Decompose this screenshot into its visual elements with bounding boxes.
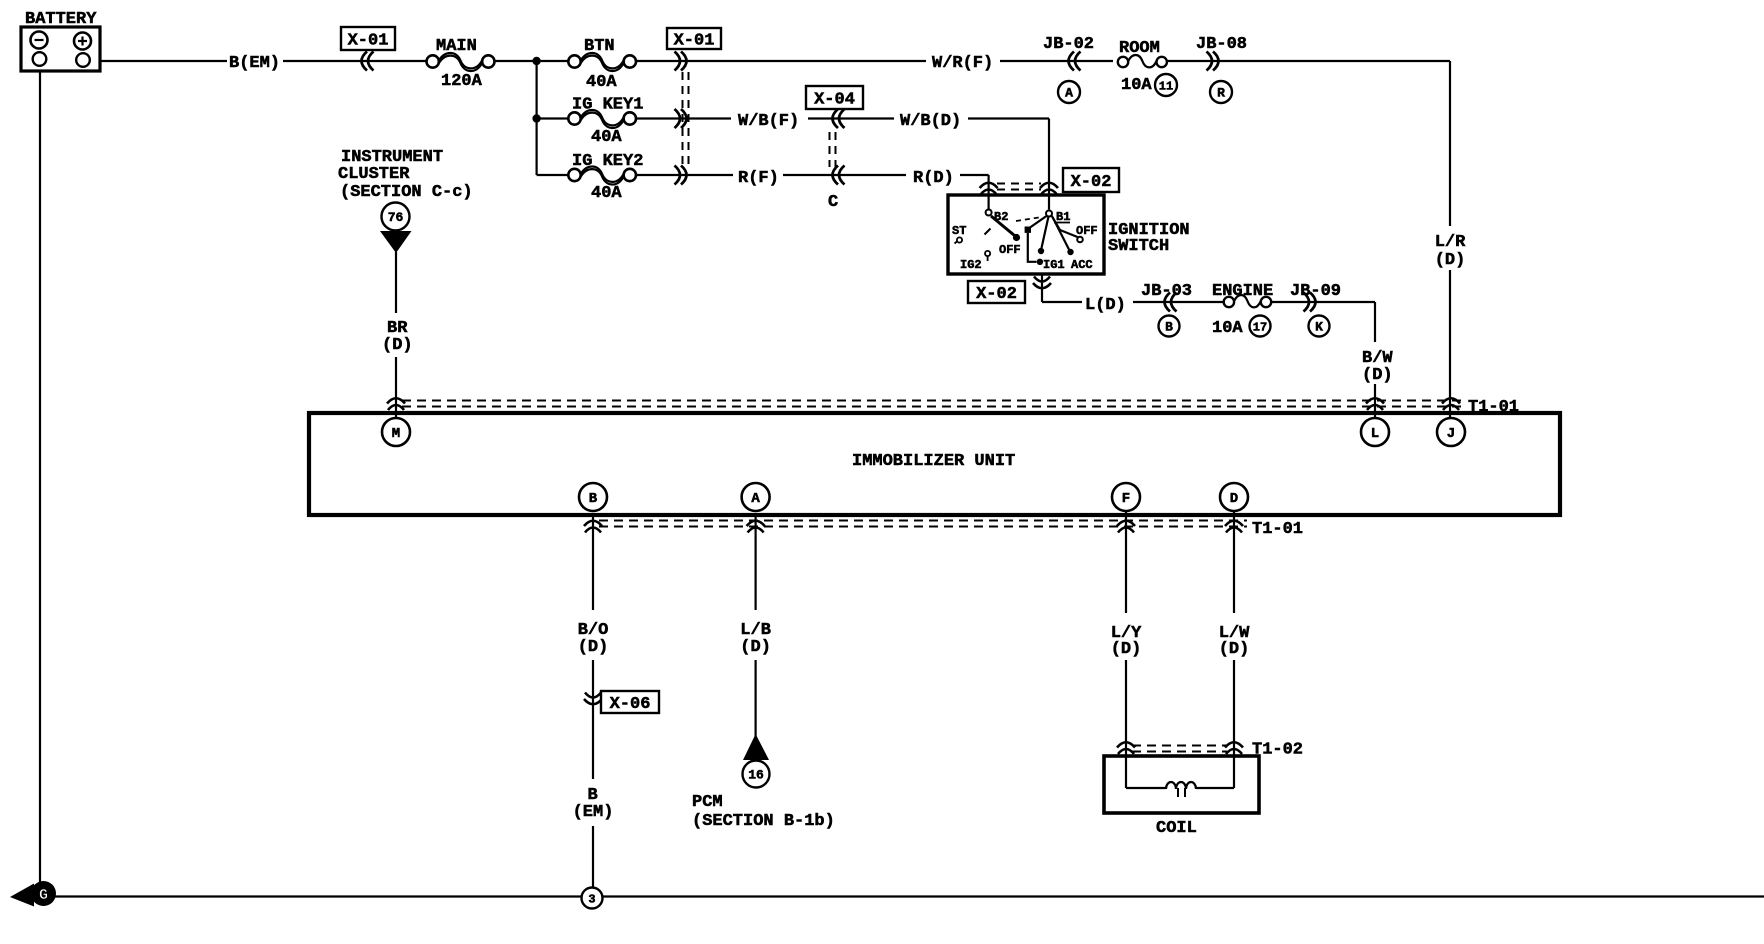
- svg-text:ENGINE: ENGINE: [1212, 282, 1273, 301]
- svg-text:IG KEY2: IG KEY2: [572, 152, 643, 171]
- svg-text:3: 3: [588, 892, 595, 906]
- svg-text:(D): (D): [1111, 640, 1142, 659]
- svg-text:OFF: OFF: [1076, 224, 1098, 238]
- svg-text:SWITCH: SWITCH: [1108, 237, 1169, 256]
- svg-text:X-01: X-01: [674, 32, 715, 51]
- svg-text:X-02: X-02: [976, 285, 1017, 304]
- svg-text:ACC: ACC: [1071, 258, 1093, 272]
- svg-text:L: L: [1371, 426, 1379, 442]
- svg-text:R(F): R(F): [738, 169, 779, 188]
- svg-text:X-02: X-02: [1071, 173, 1112, 192]
- svg-text:(EM): (EM): [573, 803, 614, 822]
- svg-text:T1-01: T1-01: [1252, 520, 1303, 539]
- svg-text:40A: 40A: [591, 184, 622, 203]
- svg-text:ROOM: ROOM: [1119, 39, 1160, 58]
- svg-text:R(D): R(D): [913, 169, 954, 188]
- svg-text:L/R: L/R: [1435, 233, 1466, 252]
- svg-text:B(EM): B(EM): [229, 54, 280, 73]
- svg-text:T1-02: T1-02: [1252, 741, 1303, 760]
- svg-text:A: A: [1065, 86, 1073, 101]
- svg-text:(D): (D): [1219, 640, 1250, 659]
- svg-text:A: A: [751, 491, 760, 507]
- svg-text:11: 11: [1159, 79, 1173, 93]
- svg-text:10A: 10A: [1212, 319, 1243, 338]
- svg-text:C: C: [828, 193, 838, 212]
- svg-text:F: F: [1122, 491, 1130, 507]
- svg-text:W/B(F): W/B(F): [738, 112, 799, 131]
- svg-text:COIL: COIL: [1156, 819, 1197, 838]
- svg-text:IG2: IG2: [960, 258, 982, 272]
- svg-text:IG KEY1: IG KEY1: [572, 96, 643, 115]
- svg-text:76: 76: [388, 210, 404, 225]
- svg-text:BATTERY: BATTERY: [25, 10, 97, 29]
- svg-text:PCM: PCM: [692, 793, 723, 812]
- svg-text:J: J: [1447, 426, 1455, 442]
- svg-text:(D): (D): [578, 638, 609, 657]
- svg-text:17: 17: [1253, 320, 1267, 334]
- svg-text:(D): (D): [382, 336, 413, 355]
- svg-text:B: B: [589, 491, 598, 507]
- svg-text:JB-09: JB-09: [1290, 282, 1341, 301]
- svg-text:OFF: OFF: [999, 243, 1021, 257]
- svg-text:(SECTION C-c): (SECTION C-c): [340, 183, 473, 202]
- svg-text:X-06: X-06: [610, 695, 651, 714]
- svg-text:BTN: BTN: [584, 37, 615, 56]
- svg-text:10A: 10A: [1121, 76, 1152, 95]
- svg-text:IG1: IG1: [1043, 258, 1065, 272]
- svg-text:16: 16: [748, 768, 764, 783]
- svg-text:(SECTION B-1b): (SECTION B-1b): [692, 812, 835, 831]
- svg-text:40A: 40A: [591, 128, 622, 147]
- svg-text:G: G: [39, 887, 48, 904]
- svg-text:M: M: [392, 426, 400, 442]
- svg-text:MAIN: MAIN: [436, 37, 477, 56]
- svg-text:D: D: [1230, 491, 1238, 507]
- svg-text:X-01: X-01: [348, 32, 389, 51]
- svg-text:W/R(F): W/R(F): [932, 54, 993, 73]
- svg-text:B: B: [1165, 320, 1173, 335]
- svg-text:R: R: [1217, 86, 1225, 101]
- svg-text:K: K: [1315, 320, 1323, 335]
- svg-text:40A: 40A: [586, 73, 617, 92]
- svg-text:CLUSTER: CLUSTER: [338, 165, 410, 184]
- svg-text:JB-03: JB-03: [1141, 282, 1192, 301]
- svg-text:(D): (D): [1435, 251, 1466, 270]
- svg-text:(D): (D): [1362, 366, 1393, 385]
- svg-text:L(D): L(D): [1085, 296, 1126, 315]
- svg-text:W/B(D): W/B(D): [900, 112, 961, 131]
- svg-text:IMMOBILIZER UNIT: IMMOBILIZER UNIT: [852, 452, 1015, 471]
- svg-text:(D): (D): [740, 638, 771, 657]
- svg-text:X-04: X-04: [814, 91, 855, 110]
- svg-text:T1-01: T1-01: [1468, 398, 1519, 417]
- svg-text:120A: 120A: [441, 72, 483, 91]
- svg-text:ST: ST: [952, 224, 966, 238]
- svg-text:JB-02: JB-02: [1043, 35, 1094, 54]
- svg-text:JB-08: JB-08: [1196, 35, 1247, 54]
